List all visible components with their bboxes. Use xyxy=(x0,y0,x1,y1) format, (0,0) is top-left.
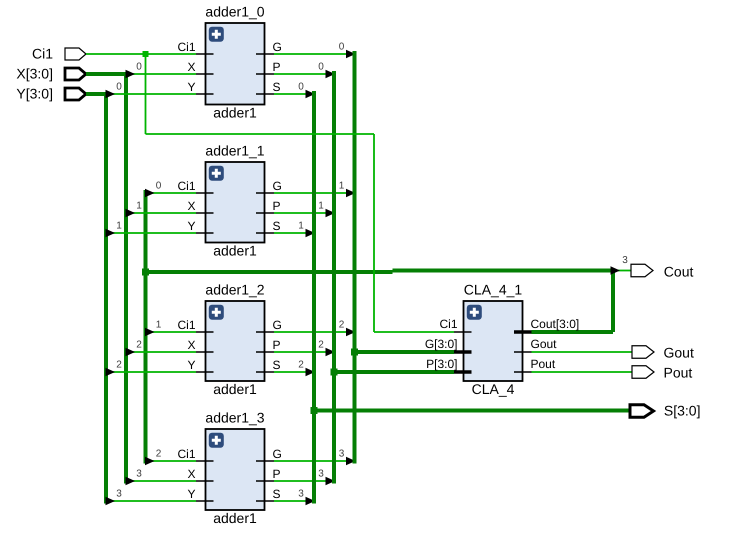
svg-text:Ci1: Ci1 xyxy=(32,46,53,62)
wire Y[3:0] from port xyxy=(86,92,106,96)
tap arrow Y(1) xyxy=(106,229,116,238)
tap label 3 (P bit 3) xyxy=(318,469,324,480)
wire Ci1 vertical drop xyxy=(145,54,147,134)
tap label 1 (Y bit 1) xyxy=(116,221,122,232)
tap label 0 (G bit 0) xyxy=(339,42,345,53)
wire S output of adder1_0 xyxy=(274,93,314,95)
tap arrow Cout(0) xyxy=(145,189,155,198)
tap arrow X(2) xyxy=(126,348,136,357)
wire G output of adder1_3 xyxy=(274,460,355,462)
svg-text:G: G xyxy=(273,40,282,54)
svg-text:P[3:0]: P[3:0] xyxy=(426,357,457,371)
tap arrow G(3) xyxy=(346,457,356,466)
svg-text:Ci1: Ci1 xyxy=(177,318,195,332)
tap arrow X(3) xyxy=(126,477,136,486)
svg-text:1: 1 xyxy=(339,181,345,192)
svg-text:3: 3 xyxy=(116,489,122,500)
wire P output of adder1_2 xyxy=(274,351,334,353)
svg-text:adder1: adder1 xyxy=(213,381,257,397)
svg-text:1: 1 xyxy=(136,201,142,212)
svg-text:Y: Y xyxy=(187,219,195,233)
svg-text:Cout: Cout xyxy=(664,264,694,280)
junction Cout[3:0] corner xyxy=(142,269,149,276)
svg-text:X: X xyxy=(187,338,195,352)
svg-text:X: X xyxy=(187,60,195,74)
wire X(1) tap to adder1_1 xyxy=(126,212,196,214)
tap arrow S(3) xyxy=(306,497,316,506)
bus Cout[3:0] feedback vertical xyxy=(144,190,148,464)
tap arrow P(1) xyxy=(326,209,336,218)
bus Cout[3:0] horizontal left xyxy=(146,270,393,274)
tap label 2 (Y bit 2) xyxy=(116,360,122,371)
tap label 2 (S bit 2) xyxy=(298,360,304,371)
tap arrow S(0) xyxy=(306,90,316,99)
wire S output of adder1_3 xyxy=(274,500,314,502)
svg-text:adder1: adder1 xyxy=(213,104,257,120)
tap arrow P(3) xyxy=(326,477,336,486)
tap arrow X(0) xyxy=(126,70,136,79)
junction S[3:0] at bus xyxy=(311,407,318,414)
tap label 0 (P bit 0) xyxy=(318,62,324,73)
tap arrow G(1) xyxy=(346,189,356,198)
svg-text:adder1: adder1 xyxy=(213,242,257,258)
tap label 2 (Cout bit 2) xyxy=(156,449,162,460)
svg-text:S[3:0]: S[3:0] xyxy=(664,403,701,419)
component adder1_1 (adder1) xyxy=(177,143,281,259)
tap label 0 (Y bit 0) xyxy=(116,82,122,93)
svg-text:X: X xyxy=(187,199,195,213)
tap label 1 (P bit 1) xyxy=(318,201,324,212)
wire Ci1 vertical to CLA row xyxy=(373,134,375,332)
wire Cout(1) tap to adder1_2 Ci1 xyxy=(146,331,197,333)
svg-text:3: 3 xyxy=(136,469,142,480)
tap label 0 (Cout bit 0) xyxy=(156,181,162,192)
tap arrow Cout(2) xyxy=(145,457,155,466)
input port Y[3:0] xyxy=(16,86,86,102)
svg-text:P: P xyxy=(273,60,281,74)
wire Y(2) tap to adder1_2 xyxy=(106,371,196,373)
wire G[3:0] into CLA_4 xyxy=(355,350,455,354)
tap label 1 (X bit 1) xyxy=(136,201,142,212)
svg-text:S: S xyxy=(273,219,281,233)
svg-text:0: 0 xyxy=(339,42,345,53)
tap label 0 (X bit 0) xyxy=(136,62,142,73)
bus S[3:0] vertical xyxy=(312,91,316,504)
svg-text:adder1_2: adder1_2 xyxy=(205,282,264,298)
svg-text:1: 1 xyxy=(156,320,162,331)
bus P[3:0] vertical xyxy=(332,71,336,484)
svg-text:CLA_4: CLA_4 xyxy=(472,381,515,397)
tap arrow Y(3) xyxy=(106,497,116,506)
svg-text:1: 1 xyxy=(116,221,122,232)
svg-text:3: 3 xyxy=(339,449,345,460)
svg-text:Ci1: Ci1 xyxy=(177,40,195,54)
tap arrow Cout(3) xyxy=(611,266,621,275)
svg-text:Y: Y xyxy=(187,80,195,94)
bus Y[3:0] vertical xyxy=(104,92,108,504)
svg-text:1: 1 xyxy=(318,201,324,212)
wire P[3:0] into CLA_4 xyxy=(334,370,454,374)
svg-text:3: 3 xyxy=(622,255,628,266)
svg-text:Y: Y xyxy=(187,358,195,372)
svg-text:Ci1: Ci1 xyxy=(177,179,195,193)
tap label 3 (Y bit 3) xyxy=(116,489,122,500)
svg-text:Pout: Pout xyxy=(664,365,693,381)
wire Cout[3:0] from CLA_4 pin xyxy=(532,330,614,334)
svg-text:0: 0 xyxy=(156,181,162,192)
svg-text:P: P xyxy=(273,199,281,213)
tap arrow X(1) xyxy=(126,209,136,218)
component adder1_0 (adder1) xyxy=(177,4,281,121)
tap arrow Y(0) xyxy=(106,90,116,99)
tap label 3 (G bit 3) xyxy=(339,449,345,460)
tap label 0 (S bit 0) xyxy=(298,82,304,93)
tap label 1 (S bit 1) xyxy=(298,221,304,232)
svg-text:0: 0 xyxy=(318,62,324,73)
input port Ci1 xyxy=(32,46,86,62)
svg-text:Y: Y xyxy=(187,487,195,501)
junction G[3:0] at bus xyxy=(351,349,358,356)
svg-text:Ci1: Ci1 xyxy=(177,447,195,461)
svg-text:G: G xyxy=(273,179,282,193)
svg-text:P: P xyxy=(273,338,281,352)
wire Y(1) tap to adder1_1 xyxy=(106,232,196,234)
svg-text:2: 2 xyxy=(318,340,324,351)
tap label 1 (G bit 1) xyxy=(339,181,345,192)
svg-text:G: G xyxy=(273,447,282,461)
wire X(3) tap to adder1_3 xyxy=(126,480,196,482)
output port Pout xyxy=(632,365,692,381)
svg-text:1: 1 xyxy=(298,221,304,232)
component adder1_2 (adder1) xyxy=(177,282,281,397)
svg-text:0: 0 xyxy=(116,82,122,93)
bus S[3:0] horizontal to port xyxy=(314,409,630,413)
svg-text:3: 3 xyxy=(298,489,304,500)
wire G output of adder1_0 xyxy=(274,53,355,55)
svg-text:X: X xyxy=(187,467,195,481)
input port X[3:0] xyxy=(16,66,86,82)
svg-text:CLA_4_1: CLA_4_1 xyxy=(464,282,523,298)
tap arrow Y(2) xyxy=(106,368,116,377)
junction Ci1 net xyxy=(143,51,149,57)
svg-text:adder1_1: adder1_1 xyxy=(205,143,264,159)
wire X(2) tap to adder1_2 xyxy=(126,351,196,353)
tap label 1 (Cout bit 1) xyxy=(156,320,162,331)
wire S output of adder1_1 xyxy=(274,232,314,234)
tap arrow Cout(1) xyxy=(145,328,155,337)
svg-text:2: 2 xyxy=(116,360,122,371)
wire G output of adder1_2 xyxy=(274,331,355,333)
svg-text:S: S xyxy=(273,358,281,372)
svg-text:S: S xyxy=(273,80,281,94)
wire P output of adder1_1 xyxy=(274,212,334,214)
svg-text:P: P xyxy=(273,467,281,481)
output port S[3:0] xyxy=(630,403,700,419)
wire Y(3) tap to adder1_3 xyxy=(106,500,196,502)
wire P output of adder1_0 xyxy=(274,73,334,75)
tap label 3 (X bit 3) xyxy=(136,469,142,480)
tap arrow P(0) xyxy=(326,70,336,79)
bus G[3:0] vertical xyxy=(353,51,357,464)
svg-text:Gout: Gout xyxy=(664,345,694,361)
bus X[3:0] vertical xyxy=(124,72,128,484)
tap label 2 (X bit 2) xyxy=(136,340,142,351)
component CLA_4_1 (CLA_4) xyxy=(425,282,579,397)
bus Cout[3:0] vertical riser xyxy=(611,271,615,333)
wire Gout from CLA_4 xyxy=(532,351,633,353)
junction P[3:0] at bus xyxy=(331,369,338,376)
svg-text:2: 2 xyxy=(136,340,142,351)
tap label 2 (P bit 2) xyxy=(318,340,324,351)
wire Cout(3) to output port xyxy=(617,270,631,272)
wire Y(0) tap to adder1_0 xyxy=(106,93,196,95)
svg-text:0: 0 xyxy=(136,62,142,73)
output port Gout xyxy=(632,345,694,361)
svg-text:2: 2 xyxy=(298,360,304,371)
wire Pout from CLA_4 xyxy=(532,371,633,373)
svg-text:2: 2 xyxy=(339,320,345,331)
wire X[3:0] from port xyxy=(86,72,126,76)
svg-text:X[3:0]: X[3:0] xyxy=(16,66,53,82)
svg-text:0: 0 xyxy=(298,82,304,93)
svg-text:Ci1: Ci1 xyxy=(439,317,457,331)
svg-text:3: 3 xyxy=(318,469,324,480)
svg-text:Pout: Pout xyxy=(531,357,556,371)
svg-text:Y[3:0]: Y[3:0] xyxy=(16,86,53,102)
tap arrow S(2) xyxy=(306,368,316,377)
bus Cout[3:0] jog xyxy=(391,271,395,273)
svg-text:Gout: Gout xyxy=(531,337,558,351)
wire Ci1 into CLA_4 pin xyxy=(374,331,454,333)
tap arrow S(1) xyxy=(306,229,316,238)
svg-text:adder1_3: adder1_3 xyxy=(205,410,264,426)
tap label 3 (Cout bit 3) xyxy=(622,255,628,266)
svg-text:2: 2 xyxy=(156,449,162,460)
tap arrow G(0) xyxy=(346,50,356,59)
wire S output of adder1_2 xyxy=(274,371,314,373)
wire P output of adder1_3 xyxy=(274,480,334,482)
wire Ci1 horizontal run xyxy=(146,133,375,135)
svg-text:G: G xyxy=(273,318,282,332)
svg-text:S: S xyxy=(273,487,281,501)
wire Cout(0) tap to adder1_1 Ci1 xyxy=(146,192,197,194)
output port Cout xyxy=(631,264,693,280)
tap label 3 (S bit 3) xyxy=(298,489,304,500)
component adder1_3 (adder1) xyxy=(177,410,281,526)
svg-text:Cout[3:0]: Cout[3:0] xyxy=(531,317,580,331)
wire X(0) tap to adder1_0 xyxy=(126,73,196,75)
wire Ci1 from port to adder1_0 xyxy=(86,53,196,55)
tap arrow P(2) xyxy=(326,348,336,357)
tap label 2 (G bit 2) xyxy=(339,320,345,331)
svg-text:adder1: adder1 xyxy=(213,510,257,526)
wire Cout(2) tap to adder1_3 Ci1 xyxy=(146,460,197,462)
svg-text:G[3:0]: G[3:0] xyxy=(425,337,458,351)
tap arrow G(2) xyxy=(346,328,356,337)
bus Cout[3:0] horizontal right xyxy=(393,269,616,273)
svg-text:adder1_0: adder1_0 xyxy=(205,4,264,20)
wire G output of adder1_1 xyxy=(274,192,355,194)
